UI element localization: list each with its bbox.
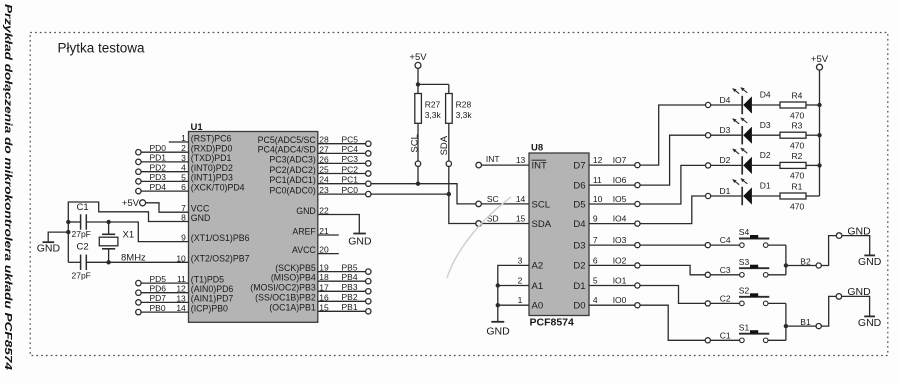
terminal IO4: [635, 221, 640, 226]
svg-text:3,3k: 3,3k: [425, 110, 442, 120]
wire C3 to switch S3: [710, 274, 739, 276]
terminal PB4: [318, 280, 366, 282]
terminal SCL: [415, 161, 420, 166]
crystal X1: [108, 222, 110, 234]
svg-text:470: 470: [790, 110, 804, 120]
svg-text:(RXD)PD0: (RXD)PD0: [191, 144, 233, 154]
wire U1 pin 8 GND staircase to ground rail: [68, 202, 188, 262]
switch S4: [740, 243, 745, 248]
wire A2 A1 A0 to ground: [498, 265, 529, 321]
svg-text:+5V: +5V: [122, 198, 140, 209]
svg-text:1: 1: [518, 295, 523, 305]
svg-text:11: 11: [593, 175, 602, 185]
wire C4 to switch S4: [710, 244, 739, 246]
terminal PD2: [136, 169, 141, 174]
svg-text:S2: S2: [739, 286, 750, 296]
wire switch S1 to node: [768, 339, 786, 341]
terminal C2: [705, 301, 710, 306]
terminal IO5: [635, 201, 640, 206]
svg-text:AREF: AREF: [292, 226, 316, 236]
resistor R27 3,3k: [415, 94, 422, 124]
svg-text:D1: D1: [720, 186, 731, 196]
wire to LED D4: [711, 104, 742, 106]
svg-text:GND: GND: [858, 256, 882, 268]
svg-text:GND: GND: [348, 235, 372, 247]
resistor R2 470: [780, 162, 806, 168]
U8 pin 5 D1: [589, 285, 635, 287]
terminal B2: [816, 263, 821, 268]
ground symbol lower right: [864, 315, 875, 317]
svg-text:5: 5: [593, 276, 598, 286]
svg-text:D5: D5: [573, 199, 585, 210]
svg-text:470: 470: [790, 141, 804, 151]
svg-text:D3: D3: [720, 125, 731, 135]
wire +5V to pullups: [417, 68, 419, 93]
wire PC1 to U8 SC: [371, 184, 476, 204]
svg-text:3,3k: 3,3k: [456, 110, 473, 120]
svg-text:PB5: PB5: [342, 262, 358, 272]
svg-text:A0: A0: [532, 301, 544, 312]
terminal IO1: [635, 283, 640, 288]
ground symbol upper right: [864, 254, 875, 256]
svg-text:PC5(ADC5/SC: PC5(ADC5/SC: [258, 135, 317, 145]
LED D2: [741, 156, 743, 174]
terminal GND lower: [836, 294, 842, 300]
svg-text:PC4(ADC4/SD: PC4(ADC4/SD: [258, 145, 316, 155]
svg-text:C4: C4: [720, 235, 731, 245]
svg-text:SCL: SCL: [532, 199, 550, 210]
terminal PD3: [136, 179, 141, 184]
svg-text:D2: D2: [720, 155, 731, 165]
node crystal top: [106, 220, 110, 224]
svg-text:(ICP)PB0: (ICP)PB0: [191, 303, 228, 313]
svg-text:C2: C2: [77, 241, 89, 252]
U8 pin 12 D7: [589, 164, 635, 166]
terminal IO6: [635, 183, 640, 188]
svg-text:GND: GND: [191, 213, 211, 223]
svg-text:+5V: +5V: [811, 54, 829, 65]
svg-text:6: 6: [593, 255, 598, 265]
wire IO4 to LED D1 row: [640, 196, 706, 224]
svg-text:D4: D4: [760, 90, 771, 100]
U1 pin 20 AVCC stub: [318, 253, 339, 255]
svg-text:PB3: PB3: [342, 282, 358, 292]
terminal GND upper: [836, 233, 842, 239]
svg-text:IO2: IO2: [613, 255, 627, 265]
junction on +5V rail: [817, 103, 821, 107]
svg-text:(XT1/OS1)PB6: (XT1/OS1)PB6: [191, 233, 250, 243]
wire switch S3 to node: [768, 274, 786, 276]
svg-text:(INT0)PD2: (INT0)PD2: [191, 163, 233, 173]
svg-text:15: 15: [516, 213, 526, 223]
wire bottom rail XT2 to U1 pin 10: [68, 261, 80, 263]
node crystal bottom: [106, 260, 110, 264]
svg-text:GND: GND: [486, 325, 510, 337]
wire S2 S1 to node B1: [785, 303, 787, 340]
svg-text:470: 470: [790, 171, 804, 181]
terminal IO3: [635, 243, 640, 248]
svg-text:10: 10: [593, 194, 603, 204]
terminal SDA: [446, 161, 451, 166]
terminal PC3: [318, 162, 366, 164]
svg-text:C3: C3: [720, 265, 731, 275]
svg-text:C2: C2: [720, 293, 731, 303]
wire LED D2 to resistor R2: [752, 164, 780, 166]
resistor R28 3,3k: [446, 94, 453, 124]
wire PC0 to U8 SD: [449, 194, 476, 223]
svg-text:R4: R4: [792, 90, 803, 100]
svg-text:PD0: PD0: [150, 143, 167, 153]
svg-text:PD5: PD5: [150, 274, 167, 284]
terminal PC1: [318, 183, 366, 185]
switch S2: [740, 301, 745, 306]
svg-text:D4: D4: [573, 219, 585, 230]
svg-text:B1: B1: [800, 317, 811, 327]
wire C1 to switch S1: [710, 339, 739, 341]
svg-text:470: 470: [790, 201, 804, 211]
svg-text:PD2: PD2: [150, 163, 167, 173]
U8 pin 7 D3: [589, 244, 635, 246]
terminal C3: [705, 272, 710, 277]
svg-text:PC2(ADC2): PC2(ADC2): [269, 165, 316, 175]
wire resistor R2 to +5V rail: [806, 164, 820, 166]
wire IO7 to LED D4 row: [640, 105, 706, 165]
terminal D3: [706, 133, 711, 138]
U8 pin 6 D2: [589, 264, 635, 266]
svg-text:X1: X1: [123, 230, 135, 241]
svg-text:U1: U1: [191, 122, 204, 133]
svg-text:(T1)PD5: (T1)PD5: [191, 274, 224, 284]
terminal PC4: [318, 152, 366, 154]
terminal PD0: [136, 150, 141, 155]
svg-text:INT: INT: [486, 154, 500, 164]
IC U8 body: [529, 153, 589, 316]
U8 pin 11 D6: [589, 184, 635, 186]
terminal PC5: [318, 143, 366, 145]
wire +5V LED rail: [819, 70, 821, 196]
terminal PB2: [318, 300, 366, 302]
U8 pin 9 D4: [589, 223, 635, 225]
resistor R1 470: [780, 193, 806, 199]
svg-text:12: 12: [593, 155, 603, 165]
svg-text:(MISO)PB4: (MISO)PB4: [271, 273, 316, 283]
terminal SD: [476, 221, 482, 227]
svg-text:PB4: PB4: [342, 272, 358, 282]
svg-text:PC5: PC5: [342, 135, 359, 145]
wire R28 to SDA terminal: [448, 123, 450, 161]
U8 pin 4 D0: [589, 304, 635, 306]
svg-text:GND: GND: [858, 317, 882, 329]
svg-text:PD4: PD4: [150, 182, 167, 192]
svg-text:(TXD)PD1: (TXD)PD1: [191, 153, 232, 163]
terminal PC0: [318, 193, 366, 195]
wire switch S2 to node: [768, 302, 786, 304]
svg-text:IO4: IO4: [613, 214, 627, 224]
svg-text:2: 2: [518, 276, 523, 286]
svg-text:INT: INT: [532, 160, 548, 171]
svg-text:PD7: PD7: [150, 293, 167, 303]
capacitor C2: [80, 255, 82, 270]
svg-text:PB2: PB2: [342, 292, 358, 302]
wire SCL down to PC1 net: [417, 166, 419, 183]
ground symbol near crystal: [43, 241, 55, 243]
svg-text:+5V: +5V: [409, 52, 427, 63]
svg-text:PC3(ADC3): PC3(ADC3): [269, 155, 316, 165]
svg-text:GND: GND: [37, 243, 61, 255]
svg-text:R1: R1: [792, 181, 803, 191]
junction on +5V rail: [817, 163, 821, 167]
svg-text:SC: SC: [487, 194, 499, 204]
wire R27 to SCL terminal: [417, 123, 419, 161]
terminal D1: [706, 193, 711, 198]
svg-text:IO6: IO6: [613, 175, 627, 185]
terminal PD4: [136, 188, 141, 193]
svg-text:Płytka testowa: Płytka testowa: [58, 40, 146, 55]
svg-text:D1: D1: [573, 281, 585, 292]
LED D3: [741, 126, 743, 144]
wire IO2 to C3: [640, 265, 705, 274]
terminal C1: [705, 338, 710, 343]
scan artifact arc: [447, 197, 511, 278]
wire switch S4 to node: [768, 244, 786, 246]
svg-text:(AIN1)PD7: (AIN1)PD7: [191, 294, 234, 304]
wire IO3 to C4: [640, 244, 705, 246]
svg-text:(AIN0)PD6: (AIN0)PD6: [191, 284, 234, 294]
svg-text:(INT1)PD3: (INT1)PD3: [191, 173, 233, 183]
terminal PB5: [318, 271, 366, 273]
svg-text:R27: R27: [425, 99, 441, 109]
svg-text:PC3: PC3: [342, 154, 359, 164]
svg-text:D4: D4: [720, 95, 731, 105]
svg-text:PC1: PC1: [342, 175, 359, 185]
wire to LED D3: [711, 134, 742, 136]
wire B2 to GND terminal: [821, 236, 836, 266]
terminal PD7: [136, 300, 141, 305]
svg-text:C1: C1: [77, 202, 89, 213]
svg-text:C1: C1: [720, 330, 731, 340]
svg-text:PB1: PB1: [342, 302, 358, 312]
wire LED D3 to resistor R3: [752, 134, 780, 136]
terminal PD5: [136, 280, 141, 285]
terminal IO2: [635, 263, 640, 268]
svg-text:D3: D3: [760, 120, 771, 130]
ground symbol below U8 address pins: [491, 321, 504, 323]
wire resistor R4 to +5V rail: [806, 104, 820, 106]
junction SDA/PC0: [447, 192, 451, 196]
wire IO6 to LED D3 row: [640, 135, 706, 185]
svg-text:D1: D1: [760, 181, 771, 191]
wire ground tap: [66, 230, 70, 234]
switch S3: [740, 273, 745, 278]
svg-text:(SCK)PB5: (SCK)PB5: [275, 263, 316, 273]
svg-text:PB0: PB0: [150, 303, 166, 313]
capacitor C1: [80, 214, 82, 229]
wire B1 to GND terminal: [821, 296, 836, 326]
wire C1 row: [68, 221, 80, 223]
svg-text:GND: GND: [296, 206, 316, 216]
svg-text:PCF8574: PCF8574: [530, 317, 575, 329]
U1 pin 22 wire to ground: [318, 215, 360, 233]
wire LED D4 to resistor R4: [752, 104, 780, 106]
svg-text:9: 9: [593, 214, 598, 224]
svg-text:4: 4: [593, 295, 598, 305]
IC U1 body: [189, 132, 318, 323]
wire IO0 to C1: [640, 305, 705, 340]
svg-text:14: 14: [516, 194, 526, 204]
svg-text:IO3: IO3: [613, 235, 627, 245]
svg-text:(OC1A)PB1: (OC1A)PB1: [269, 303, 316, 313]
wire GND terminal to ground: [842, 236, 870, 255]
wire LED D1 to resistor R1: [752, 195, 780, 197]
resistor R4 470: [780, 102, 806, 108]
terminal PD1: [136, 159, 141, 164]
svg-text:S1: S1: [739, 322, 750, 332]
svg-text:D7: D7: [573, 160, 585, 171]
terminal B1: [816, 324, 821, 329]
wire +5V to U1 pin 7: [146, 203, 189, 212]
svg-text:7: 7: [593, 235, 598, 245]
terminal PC2: [318, 173, 366, 175]
terminal INT: [476, 162, 482, 168]
terminal D4: [706, 102, 711, 107]
svg-text:A1: A1: [532, 281, 544, 292]
svg-text:B2: B2: [800, 256, 811, 266]
svg-text:AVCC: AVCC: [292, 245, 316, 255]
svg-text:PD6: PD6: [150, 284, 167, 294]
svg-text:R2: R2: [792, 151, 803, 161]
svg-text:IO0: IO0: [613, 295, 627, 305]
svg-text:U8: U8: [531, 143, 543, 154]
svg-text:D2: D2: [760, 150, 771, 160]
resistor R3 470: [780, 132, 806, 138]
svg-text:27pF: 27pF: [72, 271, 91, 281]
wire to LED D2: [711, 164, 742, 166]
wire SDA down to PC0 net: [448, 166, 450, 194]
U8 pin 13 INT: [482, 164, 529, 166]
wire to LED D1: [711, 195, 742, 197]
svg-text:PC4: PC4: [342, 144, 359, 154]
svg-text:R28: R28: [456, 99, 472, 109]
svg-text:(RST)PC6: (RST)PC6: [191, 133, 232, 143]
LED D1: [741, 187, 743, 205]
svg-text:(SS/OC1B)PB2: (SS/OC1B)PB2: [255, 293, 316, 303]
svg-text:IO7: IO7: [613, 155, 627, 165]
terminal SC: [476, 201, 482, 207]
svg-text:13: 13: [516, 155, 526, 165]
svg-text:(MOSI/OC2)PB3: (MOSI/OC2)PB3: [250, 283, 316, 293]
svg-text:SD: SD: [487, 213, 499, 223]
terminal C4: [705, 243, 710, 248]
LED D4: [741, 96, 743, 114]
svg-text:PD3: PD3: [150, 172, 167, 182]
terminal PD6: [136, 290, 141, 295]
svg-text:IO5: IO5: [613, 194, 627, 204]
wire crystal top to U1 pin 9: [109, 222, 189, 242]
svg-text:3: 3: [518, 255, 523, 265]
U8 pin 10 D5: [589, 203, 635, 205]
svg-text:D0: D0: [573, 301, 585, 312]
wire IO5 to LED D2 row: [640, 165, 706, 204]
svg-text:27pF: 27pF: [72, 229, 91, 239]
svg-text:D2: D2: [573, 261, 585, 272]
svg-text:PD1: PD1: [150, 153, 167, 163]
svg-text:A2: A2: [532, 261, 544, 272]
terminal PB0: [136, 309, 141, 314]
wire IO1 to C2: [640, 286, 705, 304]
wire GND terminal to ground lower: [842, 296, 870, 316]
svg-text:(XCK/T0)PD4: (XCK/T0)PD4: [191, 182, 245, 192]
svg-text:D6: D6: [573, 180, 585, 191]
svg-text:D3: D3: [573, 240, 585, 251]
terminal PB1: [318, 310, 366, 312]
switch S1: [740, 338, 745, 343]
svg-text:IO1: IO1: [613, 276, 627, 286]
junction on +5V rail: [817, 133, 821, 137]
svg-text:R3: R3: [792, 121, 803, 131]
U1 pin 21 AREF stub: [318, 234, 339, 236]
terminal IO0: [635, 303, 640, 308]
junction SCL/PC1: [416, 182, 420, 186]
svg-text:PC0: PC0: [342, 185, 359, 195]
svg-text:PC0(ADC0): PC0(ADC0): [269, 185, 316, 195]
svg-text:SDA: SDA: [532, 219, 552, 230]
ground symbol at U1 pin 22: [353, 233, 366, 235]
svg-text:Przykład dołączenia do mikroko: Przykład dołączenia do mikrokontrolera u…: [2, 4, 14, 370]
svg-text:PC1(ADC1): PC1(ADC1): [269, 175, 316, 185]
svg-text:S3: S3: [739, 257, 750, 267]
svg-text:(XT2/OS2)PB7: (XT2/OS2)PB7: [191, 254, 250, 264]
wire C2 to switch S2: [710, 302, 739, 304]
svg-text:PC2: PC2: [342, 164, 359, 174]
terminal PB3: [318, 290, 366, 292]
wire resistor R3 to +5V rail: [806, 134, 820, 136]
terminal IO7: [635, 163, 640, 168]
svg-text:S4: S4: [739, 227, 750, 237]
wire S4 S3 to node B2: [785, 245, 787, 275]
terminal D2: [706, 163, 711, 168]
wire resistor R1 to +5V rail: [806, 195, 820, 197]
